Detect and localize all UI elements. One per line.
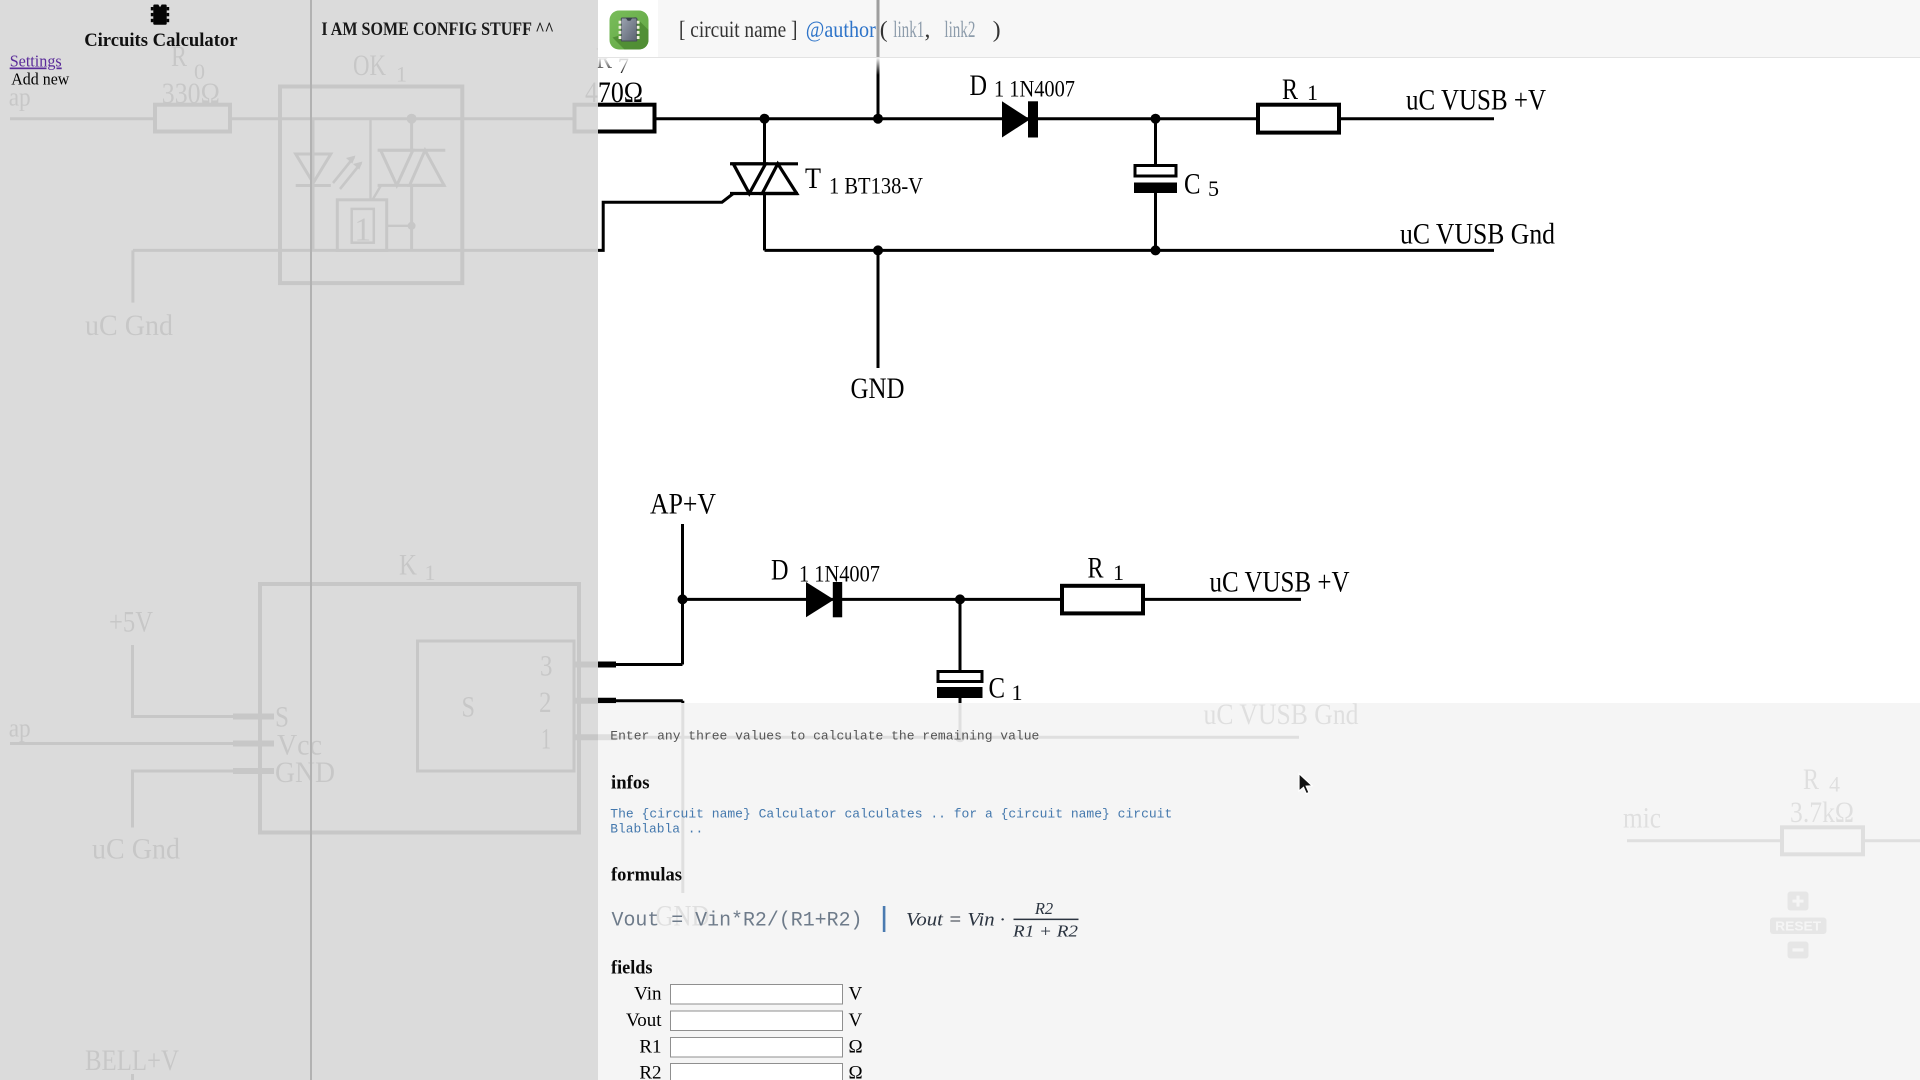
relay K1 box (260, 584, 579, 833)
LED emission arrows (333, 156, 363, 190)
wire (655, 117, 1258, 120)
trigger box with 1 (337, 200, 386, 251)
wire (1339, 117, 1494, 120)
svg-text:Vout: Vout (626, 1010, 662, 1031)
resistor R0 330Ω (155, 105, 230, 132)
node uC VUSB Gnd (bottom) (1204, 698, 1359, 731)
dim overlay left columns (0, 0, 598, 1080)
K1 inner box (418, 641, 575, 771)
wire +5V to S (133, 645, 234, 717)
pin 3 wire (574, 662, 616, 668)
field Vout (626, 1010, 863, 1031)
wire (387, 225, 412, 227)
capacitor C1 (959, 599, 962, 671)
svg-text:): ) (993, 17, 1001, 43)
top bar (598, 0, 1920, 58)
under-bar gradient (598, 58, 1920, 75)
formula separator (883, 906, 886, 932)
svg-text:infos: infos (611, 773, 650, 794)
svg-text:Enter any three values to calc: Enter any three values to calculate the … (610, 729, 1039, 744)
svg-text:Ω: Ω (849, 1037, 863, 1058)
wire to trigger box (369, 119, 371, 200)
wire bottom (top circuit) (765, 249, 1495, 252)
pin 2 wire (574, 698, 616, 704)
mouse cursor (1299, 774, 1312, 794)
topbar title (679, 17, 1001, 43)
wire triac bottom (763, 194, 766, 251)
node junction (1151, 245, 1161, 255)
node junction (873, 245, 883, 255)
node AP+V (650, 488, 716, 521)
svg-text:Vout = Vin*R2/(R1+R2): Vout = Vin*R2/(R1+R2) (612, 910, 863, 933)
wire below BELL+V (131, 1074, 134, 1080)
node ap (relay) (9, 714, 31, 743)
svg-text:R1: R1 (639, 1037, 661, 1058)
pin 1 wire uC VUSB Gnd (574, 734, 616, 740)
resistor R1 (bottom circuit) (1062, 586, 1143, 614)
node junction (955, 732, 965, 742)
svg-text:,: , (925, 17, 931, 43)
resistor R1 (top circuit) (1258, 105, 1339, 133)
sidebar chip logo (151, 5, 169, 25)
svg-text:R2: R2 (1034, 899, 1053, 918)
diode D1 1N4007 (bottom circuit) (806, 582, 842, 617)
resistor R7 470Ω (575, 105, 655, 132)
svg-text:link1: link1 (893, 17, 924, 43)
pin 2 label (539, 686, 552, 719)
node uC Gnd (85, 309, 173, 342)
field Vin (634, 984, 862, 1005)
K1 left pin Vcc (233, 741, 274, 747)
svg-text:[ circuit name ]: [ circuit name ] (679, 17, 798, 43)
node junction (955, 594, 965, 604)
node junction (407, 114, 417, 124)
wire up through bar (877, 0, 880, 119)
form overlay (598, 703, 1920, 1080)
node ap (top-left) (9, 83, 31, 112)
diode D1 1N4007 (top circuit) (1002, 101, 1038, 137)
svg-text:Vout = Vin ·: Vout = Vin · (906, 910, 1005, 931)
wire bottom left with gate jog (133, 194, 733, 251)
wire (10, 117, 155, 120)
wire down to GND (bottom circuit) (681, 701, 684, 893)
capacitor C5 (1154, 119, 1157, 166)
formula math (906, 899, 1079, 941)
optocoupler OK1 box (280, 87, 462, 284)
pin 1 label (541, 723, 551, 756)
node uC VUSB +V (bottom) (1210, 566, 1350, 599)
wire mic to R4 (1627, 839, 1782, 842)
svg-text:link2: link2 (944, 17, 975, 43)
zoom minus button (1788, 942, 1809, 959)
node junction (873, 114, 883, 124)
wire GND pin down (133, 771, 234, 828)
node uC VUSB +V (1406, 84, 1546, 117)
node junction (408, 222, 416, 230)
wire to uC Gnd (131, 250, 134, 302)
svg-text:Add new: Add new (11, 70, 70, 89)
svg-text:R2: R2 (639, 1063, 661, 1080)
field R1 (639, 1037, 862, 1058)
wire down from AP+V (681, 524, 684, 665)
node GND (bottom circuit) (656, 900, 710, 933)
triac T1 BT138-V (730, 164, 798, 194)
svg-text:I AM SOME CONFIG STUFF ^^: I AM SOME CONFIG STUFF ^^ (321, 19, 554, 40)
node GND (851, 372, 905, 405)
node mic (1623, 802, 1661, 835)
node BELL+V (85, 1044, 179, 1077)
svg-text:(: ( (880, 17, 888, 43)
wire (230, 117, 575, 120)
triac inside OK1 (373, 150, 446, 200)
K1 left pin GND (233, 768, 274, 774)
svg-text:Circuits Calculator: Circuits Calculator (84, 30, 238, 51)
field R2 (639, 1063, 862, 1080)
svg-text:formulas: formulas (611, 865, 682, 886)
wire triac bottom (410, 185, 413, 250)
svg-text:fields: fields (611, 958, 653, 979)
wire into triac T1 (763, 119, 766, 164)
svg-text:Ω: Ω (849, 1063, 863, 1080)
node junction (760, 114, 770, 124)
wire R4 right (1863, 839, 1920, 842)
node junction (678, 594, 688, 604)
K1 left pin S (233, 714, 274, 720)
svg-text:R1 + R2: R1 + R2 (1012, 922, 1078, 941)
svg-text:V: V (849, 984, 863, 1005)
column border (310, 0, 312, 1080)
svg-text:Settings: Settings (10, 52, 62, 71)
white logo box (598, 0, 658, 57)
resistor R4 3.7kΩ (1782, 827, 1863, 854)
svg-text:Vin: Vin (634, 984, 662, 1005)
wire triac top (410, 119, 413, 151)
wire to GND (877, 250, 880, 368)
node uC Gnd (relay) (92, 833, 180, 866)
wire ap to Vcc (10, 742, 233, 745)
wire main (bottom circuit) (683, 598, 1302, 601)
zoom plus button (1788, 892, 1809, 911)
node +5V (109, 606, 153, 639)
LED inside OK1 (296, 119, 331, 251)
topbar green icon (610, 11, 651, 53)
svg-text:Blablabla ..: Blablabla .. (610, 822, 703, 837)
reset button (1770, 918, 1827, 935)
svg-text:@author: @author (806, 17, 876, 43)
svg-text:The {circuit name} Calculator: The {circuit name} Calculator calculates… (610, 807, 1172, 822)
svg-text:V: V (849, 1010, 863, 1031)
node junction (1151, 114, 1161, 124)
node uC VUSB Gnd (1400, 218, 1555, 251)
pin 3 label (540, 650, 553, 683)
